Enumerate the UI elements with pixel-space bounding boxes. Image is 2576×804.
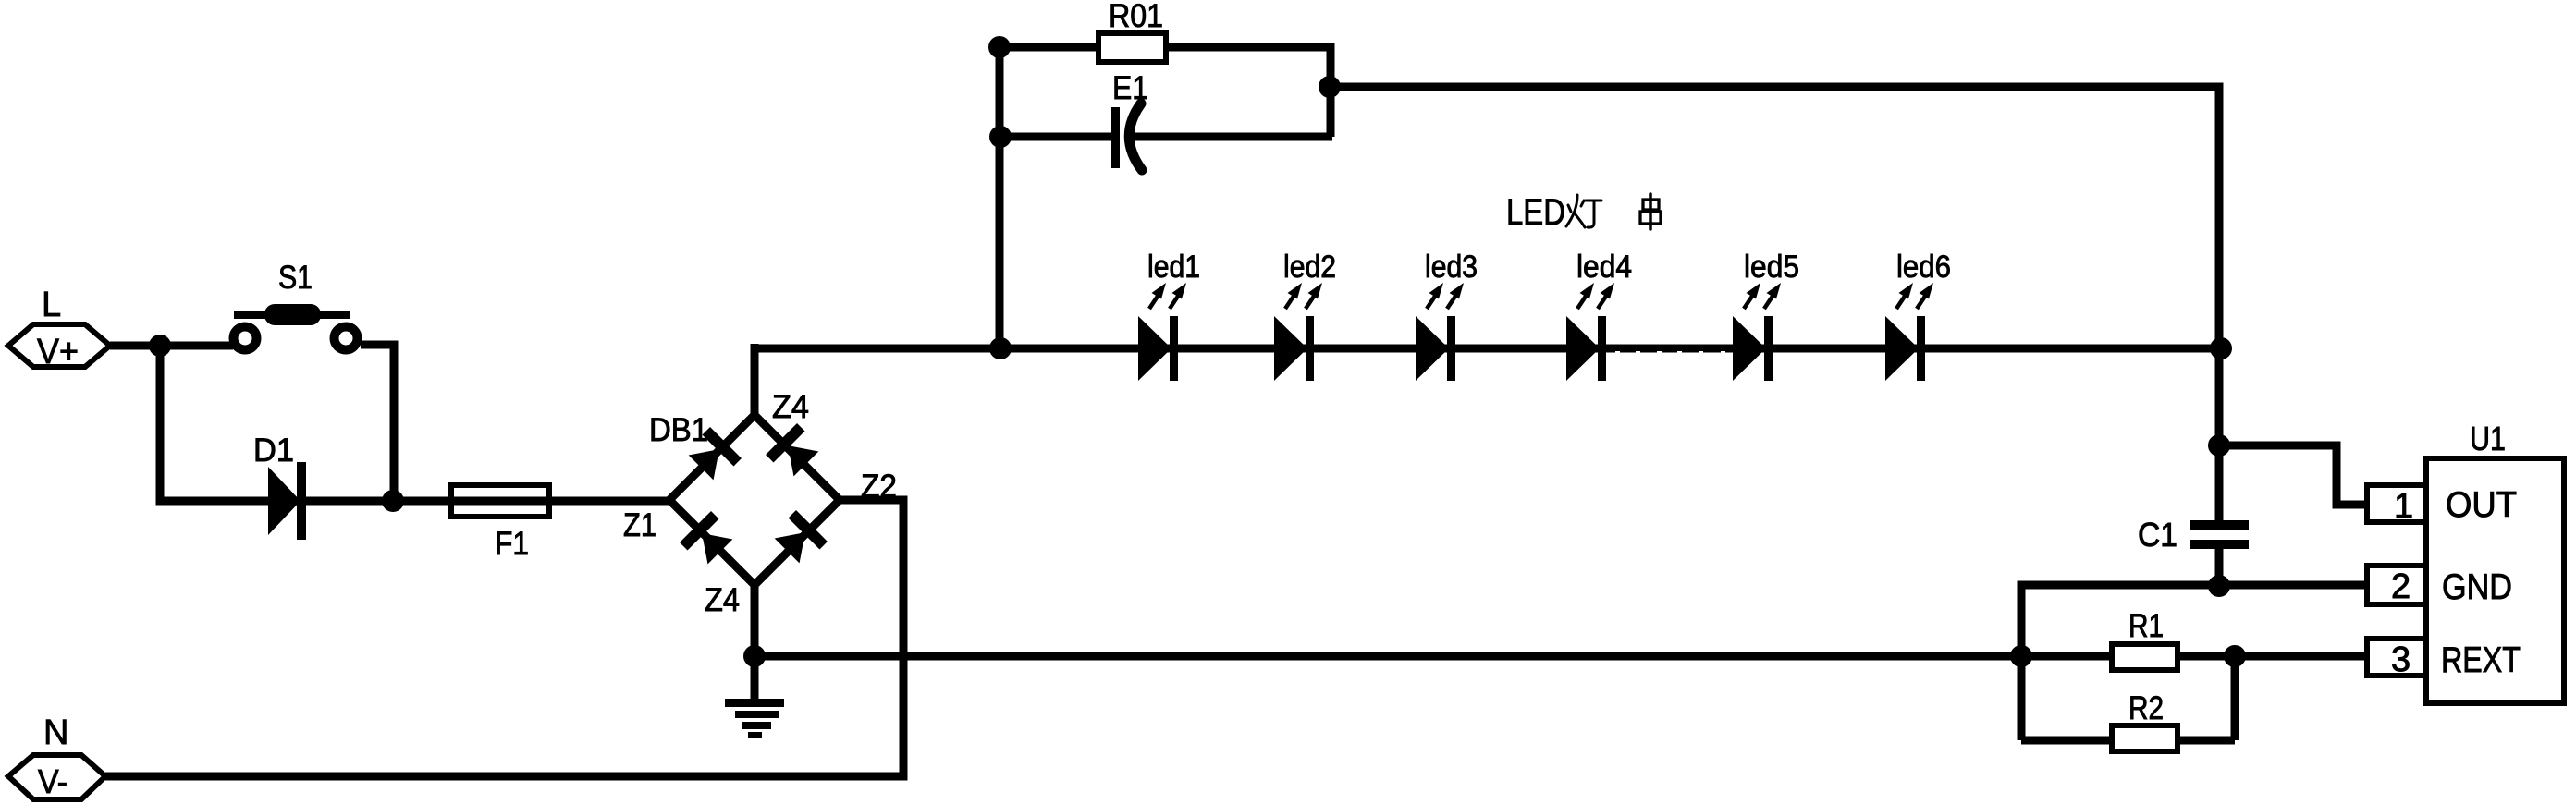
svg-text:R01: R01	[1109, 0, 1163, 34]
svg-text:Z4: Z4	[705, 582, 740, 618]
svg-text:led3: led3	[1425, 250, 1478, 285]
svg-text:F1: F1	[495, 526, 529, 562]
svg-text:DB1: DB1	[649, 412, 708, 448]
svg-text:R1: R1	[2128, 608, 2164, 644]
svg-text:Z2: Z2	[861, 469, 897, 505]
svg-text:1: 1	[2394, 487, 2413, 526]
svg-text:GND: GND	[2442, 567, 2512, 607]
svg-text:led1: led1	[1147, 250, 1200, 285]
svg-text:R2: R2	[2128, 690, 2164, 726]
svg-text:led5: led5	[1744, 250, 1799, 285]
svg-text:3: 3	[2391, 640, 2410, 679]
svg-text:OUT: OUT	[2446, 485, 2517, 525]
svg-text:led2: led2	[1283, 250, 1336, 285]
svg-text:V+: V+	[37, 333, 79, 372]
svg-text:S1: S1	[278, 260, 313, 296]
svg-text:Z1: Z1	[623, 507, 656, 543]
svg-text:led4: led4	[1576, 250, 1632, 285]
svg-text:D1: D1	[253, 432, 294, 469]
svg-text:2: 2	[2391, 567, 2410, 606]
svg-text:U1: U1	[2470, 420, 2506, 457]
svg-text:V-: V-	[38, 762, 67, 800]
svg-text:N: N	[43, 713, 68, 752]
svg-text:LED: LED	[1506, 192, 1565, 233]
svg-text:led6: led6	[1896, 250, 1951, 285]
svg-text:REXT: REXT	[2441, 640, 2521, 680]
svg-text:C1: C1	[2138, 516, 2177, 554]
svg-text:Z4: Z4	[772, 389, 809, 425]
svg-text:L: L	[42, 286, 61, 324]
svg-text:E1: E1	[1112, 70, 1148, 106]
